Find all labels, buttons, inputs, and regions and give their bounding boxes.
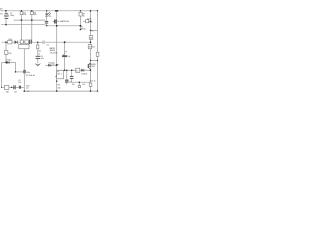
svg-text:10k: 10k — [38, 51, 41, 53]
svg-text:10k 4: 10k 4 — [57, 74, 61, 76]
svg-text:4Ω7: 4Ω7 — [6, 91, 9, 93]
svg-text:LS1: LS1 — [82, 84, 85, 86]
svg-text:10k: 10k — [89, 22, 92, 24]
svg-text:1N414: 1N414 — [6, 59, 11, 61]
svg-text:10k: 10k — [67, 56, 70, 58]
svg-text:pie: pie — [26, 88, 29, 90]
svg-text:10k: 10k — [23, 14, 26, 16]
svg-text:a: a — [58, 64, 59, 66]
svg-text:10k: 10k — [34, 14, 37, 16]
svg-text:10k: 10k — [8, 53, 11, 55]
svg-text:1k: 1k — [76, 71, 78, 73]
svg-text:10k: 10k — [58, 87, 61, 89]
svg-text:1k: 1k — [83, 15, 85, 17]
svg-text:BC547: BC547 — [89, 66, 96, 68]
svg-text:10n: 10n — [18, 82, 21, 84]
svg-text:4k7: 4k7 — [89, 47, 92, 49]
svg-text:R10 1k: R10 1k — [90, 80, 96, 82]
svg-text:1n BAT85S6: 1n BAT85S6 — [57, 20, 69, 23]
svg-text:D1: D1 — [49, 16, 51, 18]
svg-text:BC547B: BC547B — [50, 52, 58, 54]
svg-text:1N4148: 1N4148 — [81, 74, 87, 76]
svg-text:2µ2: 2µ2 — [69, 82, 72, 84]
svg-text:10n: 10n — [14, 91, 17, 93]
svg-text:D2: D2 — [52, 64, 54, 66]
svg-text:1n: 1n — [42, 43, 44, 45]
svg-text:P2 10k lin: P2 10k lin — [26, 75, 36, 77]
svg-text:100k: 100k — [87, 19, 91, 21]
svg-text:D4: D4 — [47, 45, 49, 47]
svg-text:BC55: BC55 — [81, 28, 86, 30]
svg-text:100n: 100n — [26, 72, 30, 74]
svg-text:10n: 10n — [41, 58, 44, 60]
svg-text:100k: 100k — [8, 39, 12, 41]
svg-text:P2: P2 — [65, 51, 67, 53]
svg-text:10k: 10k — [90, 38, 93, 40]
svg-text:4k7: 4k7 — [92, 46, 95, 48]
svg-text:1n: 1n — [38, 53, 40, 55]
svg-text:1k: 1k — [91, 31, 93, 33]
